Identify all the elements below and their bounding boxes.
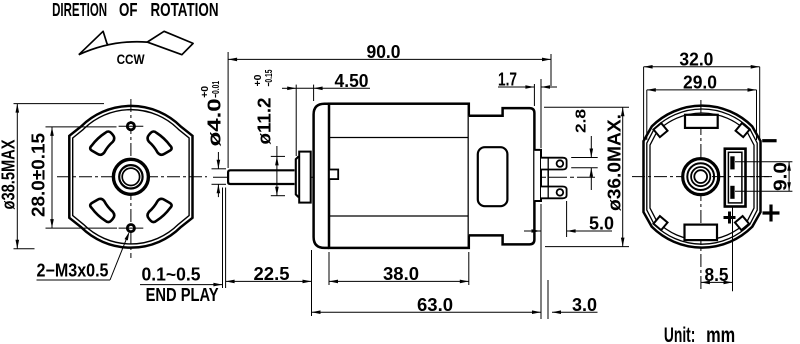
svg-text:DIRETION: DIRETION (52, 0, 107, 20)
svg-text:ø36.0MAX.: ø36.0MAX. (604, 114, 624, 211)
bearing retainer flange (299, 152, 311, 203)
front endbell (314, 104, 329, 248)
dia11.2 text (252, 69, 275, 144)
ext line bell face (311, 250, 313, 316)
svg-text:3.0: 3.0 (572, 295, 597, 315)
terminal block side (534, 150, 541, 201)
front view inner housing outline (73, 110, 189, 244)
rear vent bottom (685, 225, 718, 241)
svg-text:Unit:: Unit: (664, 324, 696, 344)
svg-text:63.0: 63.0 (417, 295, 453, 315)
polarity plus (outside) (763, 205, 780, 222)
dim dia36.0MAX line (622, 107, 624, 246)
dim 29.0 ext lines (646, 90, 648, 140)
dim 4.50 ext line (295, 85, 297, 156)
ext lines right of cap (540, 204, 542, 319)
svg-text:ø4.0: ø4.0 (204, 98, 224, 146)
svg-text:0.1~0.5: 0.1~0.5 (142, 265, 201, 285)
svg-text:90.0: 90.0 (367, 42, 401, 62)
dim 4.50 (282, 87, 296, 89)
front view vent slot NE (148, 131, 172, 154)
rear crimp tab top-right (736, 123, 750, 137)
dimension dia38.5MAX line (16, 104, 18, 249)
dim 2.8 ticks (571, 157, 598, 159)
front view vent slot SE (148, 199, 172, 222)
svg-text:ø11.2: ø11.2 (255, 98, 275, 145)
front view outer housing outline (69, 106, 192, 248)
dim 90.0 ext lines (227, 52, 229, 168)
dia4.0 text (199, 81, 225, 147)
dim 63.0 (312, 311, 542, 313)
dim 8.5 ext line (732, 208, 734, 292)
terminal bottom (541, 187, 567, 199)
front view horizontal centerline (57, 176, 207, 178)
dim dia36.0MAX ext lines (544, 106, 629, 108)
rear terminal slot top (730, 156, 734, 169)
dim 1.7 ext line (533, 84, 535, 106)
dimension 28.0 line (51, 127, 53, 228)
polarity minus (outside) (762, 139, 776, 142)
can silhouette lines (329, 137, 469, 139)
dim 5.0 (524, 230, 541, 232)
front view vent slot SW (90, 199, 114, 222)
side view shaft axis centerline (213, 176, 598, 178)
polarity plus small (inside) (724, 212, 736, 224)
svg-text:ø38.5MAX: ø38.5MAX (0, 140, 19, 210)
end play ext lines (222, 188, 224, 289)
motor can (329, 104, 469, 248)
dim dia4.0 arrows (217, 152, 219, 169)
svg-text:4.50: 4.50 (335, 71, 369, 91)
end cap window (478, 147, 508, 206)
svg-text:5.0: 5.0 (589, 213, 614, 233)
rear bearing rings (683, 159, 719, 195)
dim dia11.2 line/arrows (276, 146, 278, 196)
front view vent slot NW (90, 131, 114, 154)
dim 9.0 ext lines (735, 161, 792, 163)
svg-text:1.7: 1.7 (498, 70, 517, 90)
CCW curved arrow (79, 42, 147, 55)
rear view horizontal centerline (632, 176, 772, 178)
svg-text:−0.01: −0.01 (210, 81, 222, 98)
dim 38.0 (329, 280, 469, 282)
svg-text:28.0±0.15: 28.0±0.15 (29, 133, 49, 217)
dim 1.7 (498, 86, 534, 88)
dimension dia38.5MAX extension lines (14, 103, 105, 105)
dim 90.0 (228, 58, 551, 60)
dim dia11.2 ticks (271, 155, 285, 157)
rear terminal block outer (725, 149, 746, 207)
rear terminal slot bottom (730, 186, 734, 199)
dim 32.0 ext lines (643, 67, 645, 140)
terminal top (541, 158, 567, 170)
svg-text:29.0: 29.0 (683, 73, 717, 93)
dim 8.5 (701, 281, 733, 283)
dim 29.0 (647, 89, 757, 91)
dim dia4.0 ticks (212, 168, 227, 170)
svg-text:2.8: 2.8 (572, 109, 589, 133)
dimension 28.0 extension lines (46, 126, 117, 128)
rear crimp tab bottom-left (653, 216, 667, 230)
svg-text:END PLAY: END PLAY (146, 285, 219, 305)
svg-text:ROTATION: ROTATION (151, 0, 219, 20)
svg-text:2−M3x0.5: 2−M3x0.5 (37, 261, 109, 281)
svg-text:9.0: 9.0 (770, 162, 790, 191)
dim 32.0 (644, 66, 760, 68)
svg-text:22.5: 22.5 (254, 264, 290, 284)
M3 mounting hole bottom (127, 225, 134, 232)
rear view inner outline (650, 113, 754, 240)
svg-text:38.0: 38.0 (383, 264, 419, 284)
rear crimp tab top-left (653, 123, 667, 137)
shaft (228, 170, 294, 184)
rear end cap (469, 108, 535, 244)
rear crimp tab bottom-right (735, 216, 749, 230)
svg-text:OF: OF (119, 0, 138, 20)
dim 22.5 (226, 280, 312, 282)
can seam tab (329, 170, 338, 180)
svg-text:CCW: CCW (117, 51, 146, 67)
bearing boss dia11.2 (296, 157, 300, 197)
svg-text:32.0: 32.0 (679, 49, 713, 69)
rear view mid outline (647, 109, 757, 244)
rear terminal block inner (728, 152, 742, 203)
dim 3.0 (552, 311, 598, 313)
svg-text:−0.15: −0.15 (263, 69, 275, 86)
rear view outer outline (644, 106, 761, 248)
rear view vertical centerline (700, 100, 702, 291)
dim 9.0 line (788, 162, 790, 191)
M3 mounting hole top (127, 123, 134, 130)
rear horizontal centerline over block (712, 176, 770, 178)
front view vertical centerline (130, 99, 132, 258)
svg-text:8.5: 8.5 (705, 265, 729, 285)
svg-text:mm: mm (706, 324, 735, 344)
front view shaft boss rings (113, 159, 148, 194)
leader to bottom hole (110, 235, 128, 280)
rear vent top (685, 115, 718, 128)
dim 5.0 ext line (566, 201, 568, 237)
dim 38.0 ext lines (328, 252, 330, 285)
dim 2.8 arrows (590, 136, 592, 158)
